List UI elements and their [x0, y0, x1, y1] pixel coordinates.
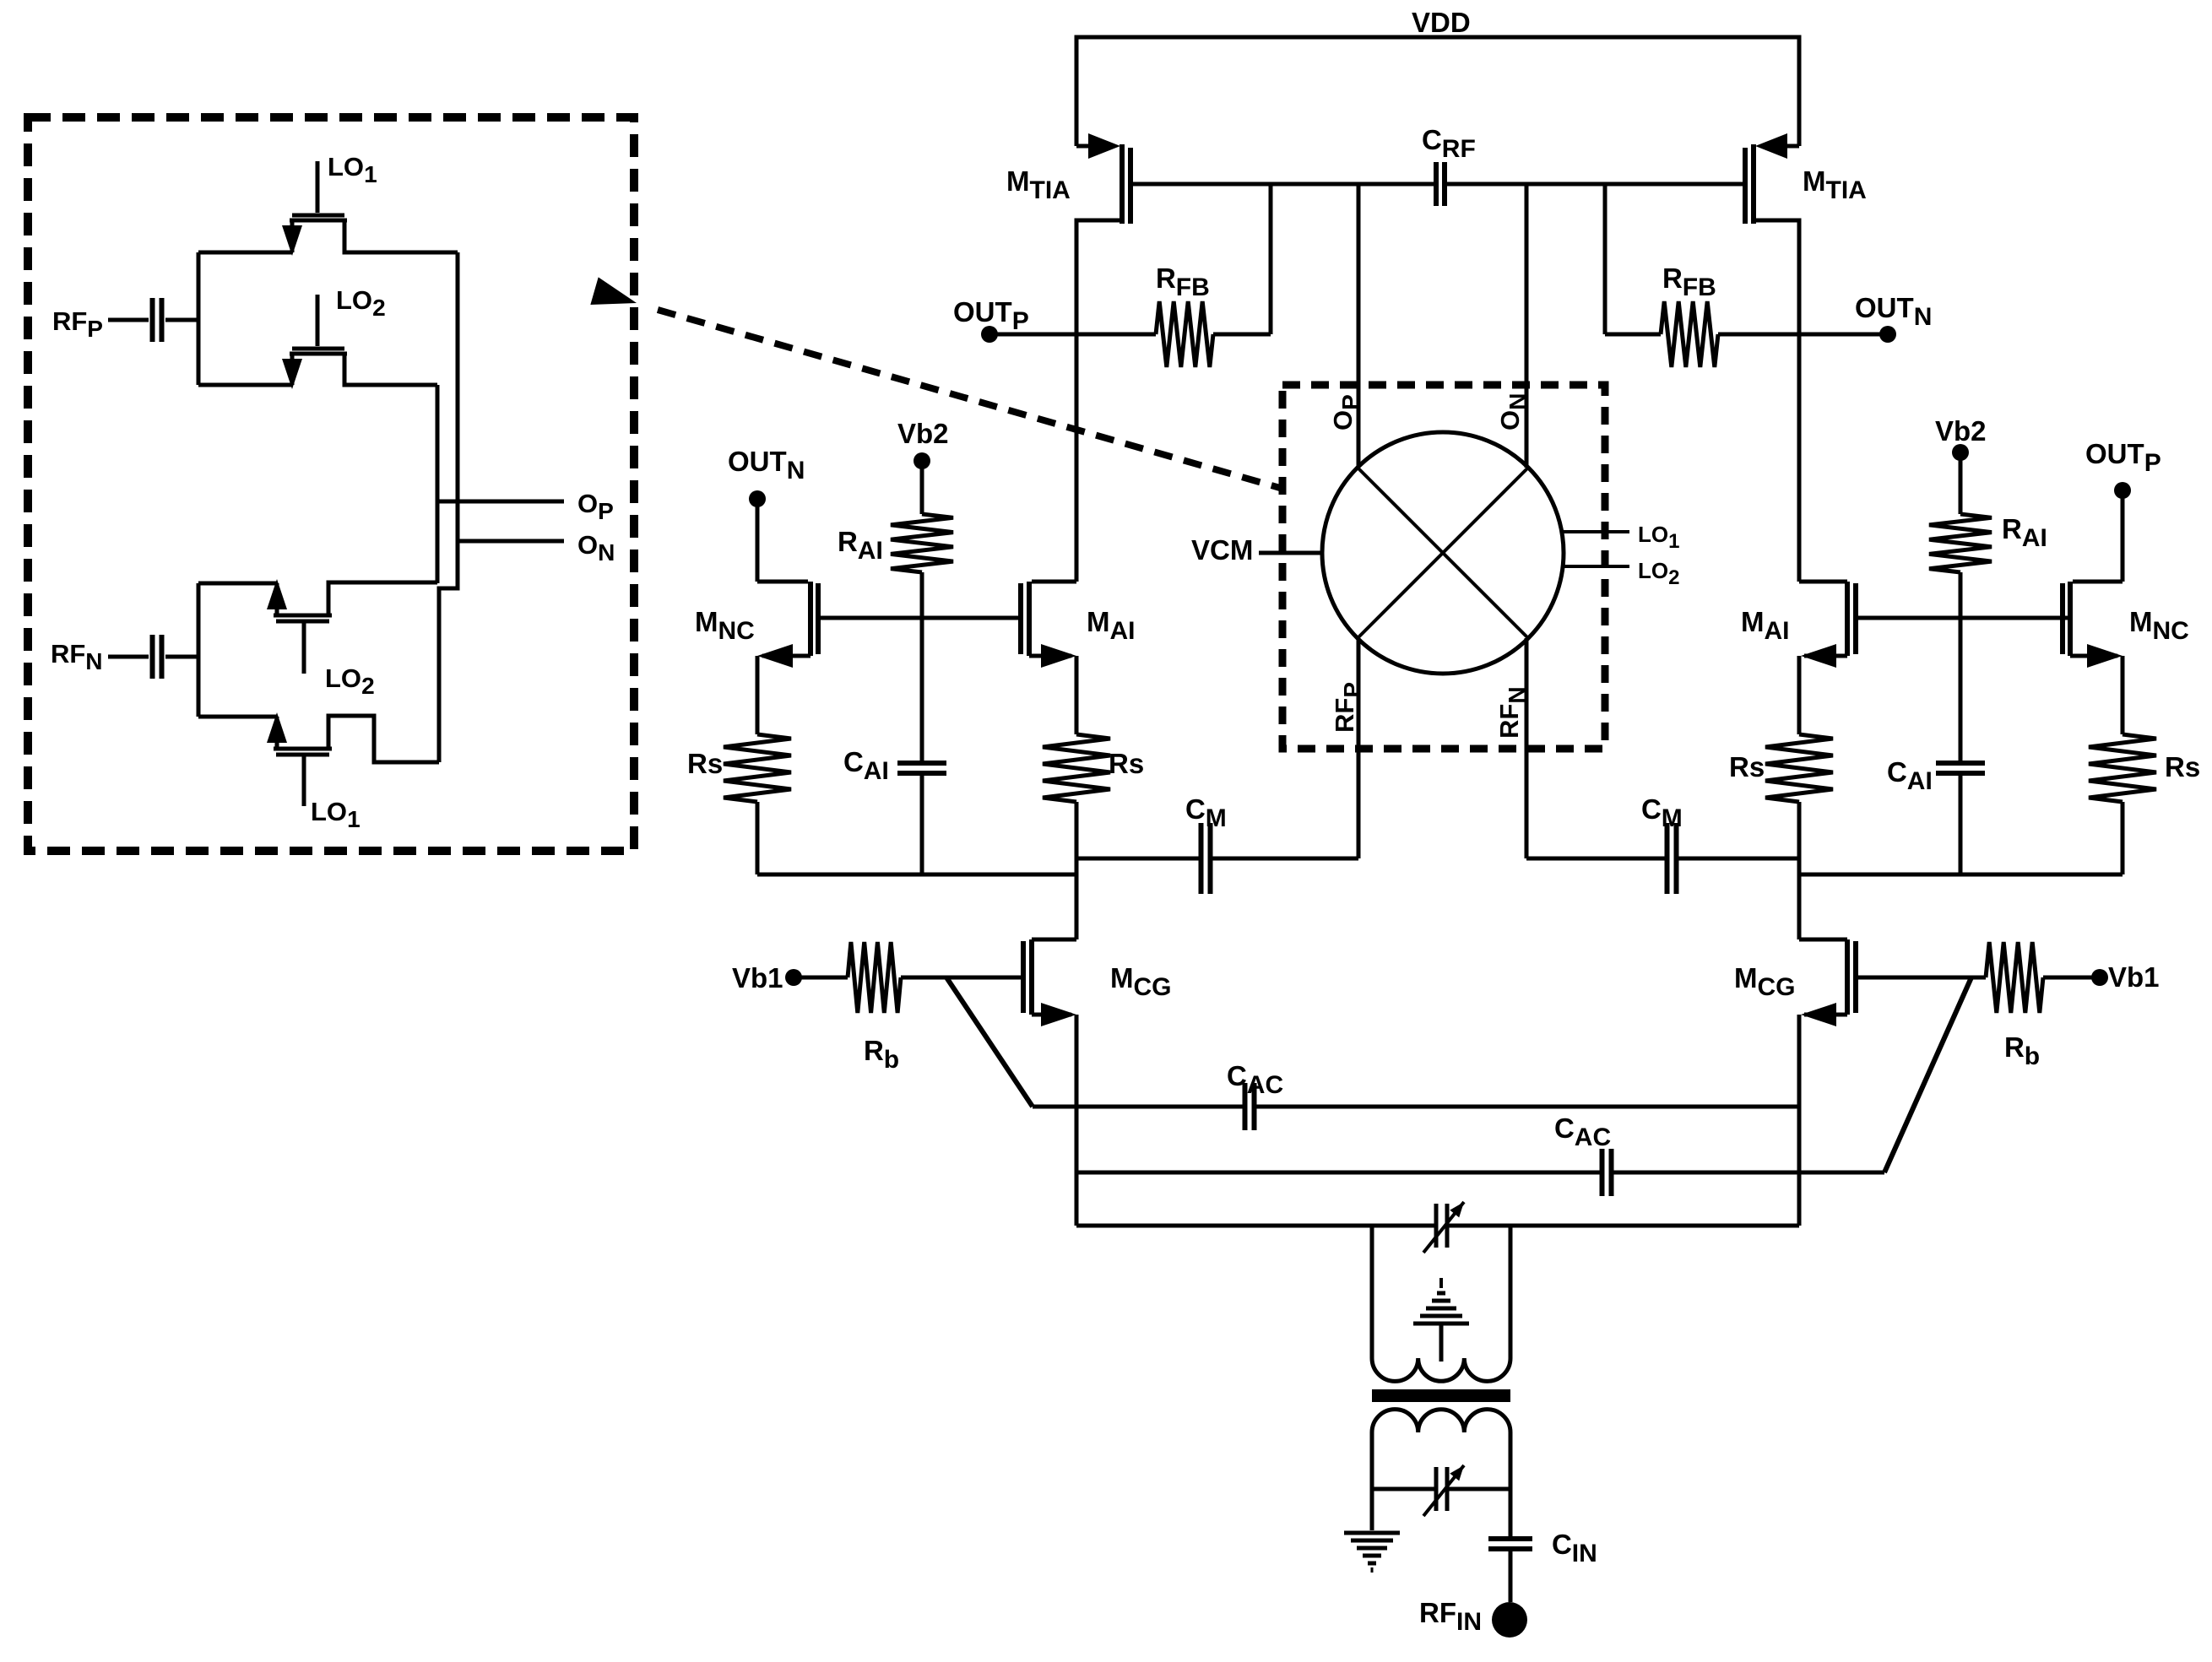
- svg-text:LO: LO: [328, 152, 364, 181]
- svg-text:R: R: [1156, 263, 1176, 294]
- svg-text:N: N: [85, 648, 102, 674]
- svg-text:OUT: OUT: [728, 446, 787, 477]
- svg-text:FB: FB: [1176, 273, 1210, 301]
- svg-text:AI: AI: [2022, 524, 2047, 552]
- svg-text:O: O: [577, 489, 598, 518]
- svg-text:OUT: OUT: [2085, 438, 2144, 469]
- svg-text:M: M: [1803, 165, 1826, 197]
- svg-text:LO: LO: [1638, 558, 1668, 583]
- svg-text:M: M: [1087, 606, 1110, 637]
- svg-text:R: R: [2004, 1031, 2025, 1063]
- svg-text:IN: IN: [1456, 1608, 1482, 1636]
- svg-text:RF: RF: [1442, 135, 1476, 163]
- svg-text:VDD: VDD: [1412, 7, 1471, 38]
- svg-text:1: 1: [347, 806, 361, 832]
- svg-text:2: 2: [361, 673, 375, 699]
- svg-text:P: P: [87, 316, 103, 342]
- svg-text:M: M: [1741, 606, 1765, 637]
- svg-text:AI: AI: [1907, 767, 1933, 795]
- svg-text:1: 1: [1668, 530, 1679, 553]
- svg-text:NC: NC: [718, 617, 755, 645]
- svg-text:AI: AI: [864, 757, 889, 785]
- svg-text:M: M: [695, 606, 718, 637]
- svg-text:RF: RF: [52, 306, 87, 336]
- svg-text:M: M: [1662, 804, 1683, 832]
- svg-text:M: M: [1006, 165, 1030, 197]
- svg-text:R: R: [838, 526, 858, 557]
- svg-text:M: M: [1734, 962, 1758, 993]
- svg-text:N: N: [598, 539, 615, 566]
- svg-text:FB: FB: [1683, 273, 1716, 301]
- svg-text:b: b: [2025, 1042, 2040, 1070]
- svg-text:CG: CG: [1134, 973, 1172, 1001]
- svg-text:R: R: [864, 1035, 884, 1066]
- svg-text:P: P: [598, 498, 614, 524]
- svg-text:N: N: [787, 457, 805, 485]
- svg-text:C: C: [1185, 793, 1206, 825]
- svg-text:R: R: [2002, 513, 2022, 544]
- svg-text:2: 2: [1668, 566, 1679, 589]
- svg-text:Vb1: Vb1: [2108, 961, 2160, 993]
- svg-text:O: O: [577, 530, 598, 560]
- svg-text:b: b: [884, 1046, 899, 1074]
- svg-text:IN: IN: [1572, 1540, 1597, 1567]
- svg-text:AI: AI: [858, 537, 883, 565]
- svg-text:2: 2: [372, 295, 386, 321]
- svg-text:AC: AC: [1575, 1123, 1611, 1151]
- svg-text:M: M: [2129, 606, 2153, 637]
- svg-text:VCM: VCM: [1191, 534, 1253, 566]
- svg-text:RF: RF: [1419, 1597, 1456, 1628]
- svg-text:AI: AI: [1765, 617, 1790, 645]
- svg-text:RF: RF: [51, 639, 85, 669]
- svg-text:1: 1: [364, 161, 377, 187]
- svg-text:Vb2: Vb2: [1935, 415, 1987, 447]
- svg-text:Vb1: Vb1: [732, 962, 783, 993]
- svg-text:Vb2: Vb2: [897, 418, 949, 449]
- svg-text:LO: LO: [311, 797, 347, 826]
- svg-text:NC: NC: [2153, 617, 2189, 645]
- svg-text:M: M: [1206, 804, 1227, 832]
- svg-text:Rs: Rs: [2165, 751, 2200, 782]
- svg-text:AI: AI: [1110, 617, 1136, 645]
- svg-text:Rs: Rs: [1729, 751, 1765, 782]
- svg-text:C: C: [1887, 756, 1907, 788]
- svg-text:C: C: [1554, 1113, 1575, 1144]
- svg-text:TIA: TIA: [1826, 176, 1867, 204]
- svg-text:C: C: [1227, 1060, 1247, 1091]
- svg-text:Rs: Rs: [1109, 748, 1144, 779]
- svg-text:OUT: OUT: [1855, 292, 1914, 323]
- svg-text:LO: LO: [325, 663, 361, 693]
- svg-text:C: C: [843, 746, 864, 777]
- svg-text:CG: CG: [1758, 973, 1796, 1001]
- svg-text:R: R: [1662, 263, 1683, 294]
- svg-text:P: P: [2144, 449, 2161, 477]
- svg-text:LO: LO: [1638, 522, 1668, 547]
- svg-text:N: N: [1914, 303, 1933, 331]
- svg-text:C: C: [1422, 124, 1442, 155]
- svg-text:C: C: [1552, 1529, 1572, 1560]
- svg-text:TIA: TIA: [1030, 176, 1071, 204]
- svg-text:C: C: [1641, 793, 1662, 825]
- svg-text:Rs: Rs: [687, 748, 723, 779]
- svg-text:OUT: OUT: [953, 296, 1012, 328]
- svg-text:AC: AC: [1247, 1071, 1283, 1099]
- svg-text:M: M: [1110, 962, 1134, 993]
- svg-text:LO: LO: [336, 285, 372, 315]
- svg-text:P: P: [1012, 307, 1029, 335]
